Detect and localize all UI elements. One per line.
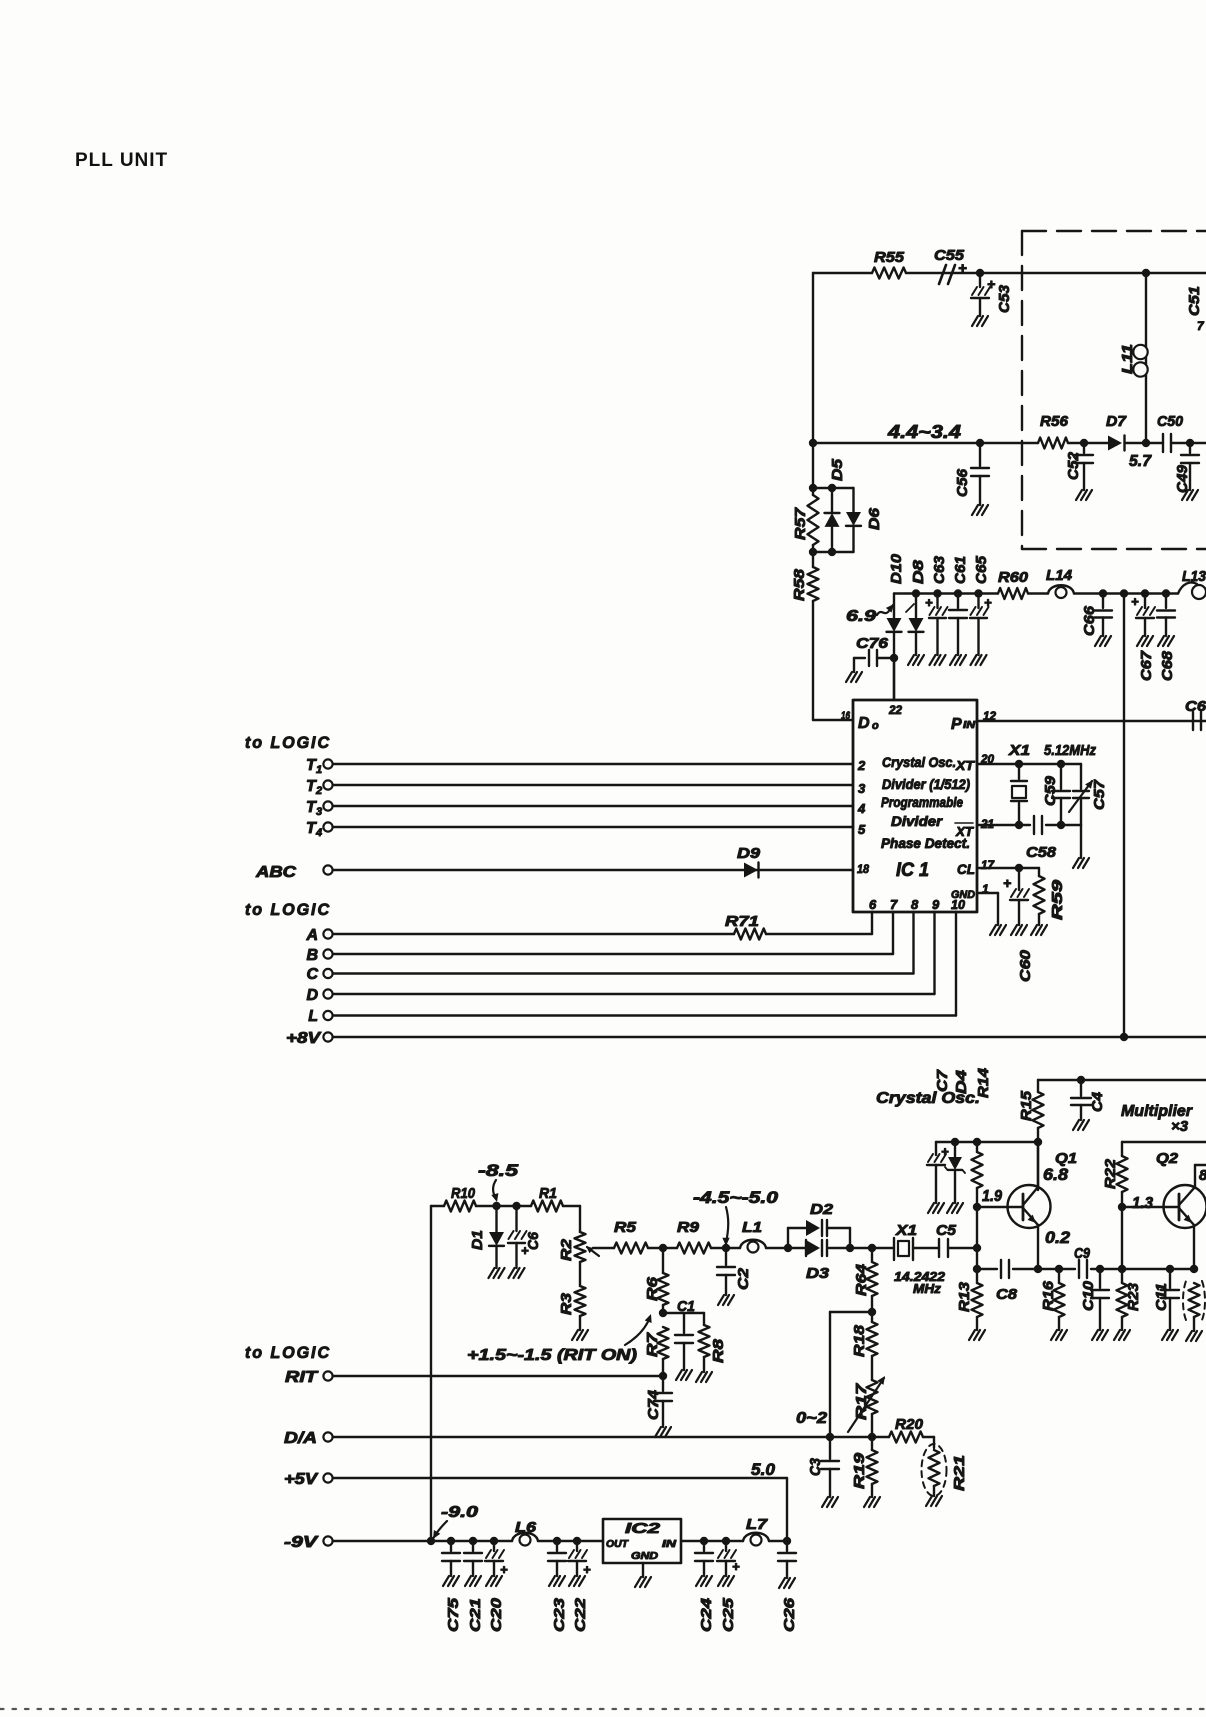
svg-text:to LOGIC: to LOGIC [245,733,331,752]
svg-text:R19: R19 [851,1452,868,1489]
svg-text:6.9: 6.9 [846,608,876,625]
svg-text:+: + [583,1562,591,1577]
svg-text:C52: C52 [1065,451,1082,480]
svg-text:-4.5~-5.0: -4.5~-5.0 [693,1188,779,1207]
svg-text:17: 17 [981,858,995,872]
svg-text:R7: R7 [644,1332,661,1357]
svg-text:18: 18 [857,862,869,876]
svg-text:CL: CL [957,861,975,877]
svg-text:1: 1 [316,764,322,776]
svg-text:C: C [306,966,318,983]
svg-text:7: 7 [890,897,898,912]
svg-text:D9: D9 [737,845,761,862]
svg-text:X1: X1 [1008,742,1030,759]
svg-text:10: 10 [951,897,966,912]
svg-text:D1: D1 [469,1230,486,1250]
svg-text:o: o [872,720,879,732]
svg-text:C10: C10 [1080,1280,1097,1311]
svg-text:+1.5~-1.5 (RIT ON): +1.5~-1.5 (RIT ON) [467,1347,637,1364]
svg-text:4.4~3.4: 4.4~3.4 [887,422,961,442]
svg-text:L7: L7 [746,1516,768,1533]
svg-text:C61: C61 [952,556,969,584]
svg-text:R3: R3 [558,1292,575,1315]
svg-text:ABC: ABC [255,864,297,881]
svg-text:Programmable: Programmable [881,795,963,810]
svg-text:D10: D10 [888,553,905,584]
svg-text:-9V: -9V [284,1534,319,1551]
svg-text:+: + [1003,875,1011,891]
svg-text:R14: R14 [975,1067,992,1098]
svg-text:L6: L6 [515,1519,537,1536]
svg-text:+: + [925,595,933,610]
svg-text:C25: C25 [720,1597,737,1632]
svg-text:+: + [987,276,995,292]
svg-text:+: + [1131,594,1139,609]
svg-text:C57: C57 [1091,779,1108,810]
svg-text:6: 6 [869,897,877,912]
svg-text:R15: R15 [1018,1090,1035,1121]
svg-text:C26: C26 [781,1597,798,1632]
svg-text:C6: C6 [1185,698,1206,715]
svg-text:R9: R9 [677,1219,700,1236]
svg-text:C74: C74 [645,1389,662,1420]
svg-text:C65: C65 [973,555,990,584]
svg-text:Crystal Osc.: Crystal Osc. [882,755,956,770]
svg-text:8: 8 [911,897,919,912]
svg-text:R10: R10 [451,1185,476,1202]
svg-text:A: A [305,927,318,944]
svg-text:C58: C58 [1026,844,1057,861]
svg-text:R57: R57 [792,507,809,540]
svg-text:D6: D6 [866,507,883,530]
svg-text:5.7: 5.7 [1129,453,1152,470]
svg-text:Q2: Q2 [1156,1150,1179,1167]
svg-text:R71: R71 [725,913,759,930]
svg-text:9: 9 [932,897,940,912]
svg-text:R16: R16 [1040,1280,1057,1311]
svg-text:R2: R2 [558,1238,575,1261]
svg-text:D4: D4 [953,1069,970,1094]
svg-text:3: 3 [858,781,866,796]
svg-text:C53: C53 [996,284,1013,313]
svg-text:to LOGIC: to LOGIC [245,900,331,919]
svg-text:R55: R55 [874,249,905,266]
svg-text:C8: C8 [996,1286,1018,1303]
svg-text:C68: C68 [1159,650,1176,681]
svg-text:2: 2 [315,785,322,797]
svg-text:C66: C66 [1081,605,1098,636]
svg-text:D7: D7 [1106,413,1127,430]
svg-text:Divider (1/512): Divider (1/512) [882,777,970,792]
svg-text:L14: L14 [1046,567,1073,584]
svg-text:5.12MHz: 5.12MHz [1044,742,1096,759]
svg-text:IC2: IC2 [625,1520,661,1537]
svg-text:6.8: 6.8 [1043,1165,1069,1184]
svg-text:Divider: Divider [891,814,943,829]
svg-text:R20: R20 [895,1416,924,1433]
svg-text:L1: L1 [742,1219,762,1236]
svg-text:C51: C51 [1186,286,1203,316]
svg-text:XT: XT [955,758,975,773]
svg-text:to LOGIC: to LOGIC [245,1343,331,1362]
svg-text:L11: L11 [1119,344,1136,374]
svg-text:+: + [941,1144,949,1159]
svg-text:C1: C1 [677,1298,695,1315]
svg-text:2: 2 [857,758,866,773]
svg-text:C4: C4 [1089,1091,1106,1112]
svg-text:+8V: +8V [286,1030,322,1047]
svg-text:IC 1: IC 1 [896,860,929,881]
svg-text:L13: L13 [1182,568,1206,585]
svg-text:5.0: 5.0 [751,1460,776,1479]
svg-text:0.2: 0.2 [1045,1228,1071,1247]
svg-text:C9: C9 [1074,1245,1091,1262]
svg-text:R56: R56 [1040,413,1069,430]
svg-text:R8: R8 [710,1338,727,1363]
svg-text:X1: X1 [895,1222,917,1239]
svg-text:C63: C63 [931,555,948,584]
svg-text:R60: R60 [998,569,1029,586]
svg-text:C56: C56 [954,468,971,497]
svg-text:C21: C21 [467,1598,484,1632]
svg-text:C75: C75 [445,1597,462,1632]
svg-text:-9.0: -9.0 [441,1504,478,1521]
svg-text:R5: R5 [614,1219,637,1236]
svg-text:RIT: RIT [285,1369,319,1386]
svg-text:D/A: D/A [284,1430,317,1447]
svg-text:0~2: 0~2 [796,1410,827,1427]
svg-text:5: 5 [858,822,866,837]
svg-text:C5: C5 [936,1222,957,1239]
svg-text:R1: R1 [539,1185,557,1202]
svg-text:C24: C24 [698,1597,715,1632]
svg-text:R64: R64 [853,1263,870,1296]
svg-text:-8.5: -8.5 [478,1161,519,1180]
svg-text:OUT: OUT [606,1539,629,1550]
svg-text:4: 4 [857,801,866,816]
svg-text:R6: R6 [644,1276,661,1301]
svg-text:GND: GND [631,1551,658,1562]
svg-text:R18: R18 [851,1324,868,1357]
svg-text:+5V: +5V [284,1471,319,1488]
svg-text:+: + [984,595,992,610]
svg-text:C7: C7 [934,1069,951,1092]
svg-text:D2: D2 [810,1201,834,1218]
svg-text:1.9: 1.9 [982,1188,1002,1205]
svg-text:+: + [732,1559,740,1574]
svg-text:P: P [951,716,962,733]
svg-text:C60: C60 [1017,949,1034,982]
svg-text:C67: C67 [1138,650,1155,681]
svg-text:8: 8 [1199,1167,1206,1184]
svg-text:7: 7 [1197,319,1205,333]
svg-text:+: + [500,1562,508,1577]
svg-text:D8: D8 [910,559,927,584]
svg-text:R59: R59 [1049,879,1066,920]
svg-text:C11: C11 [1153,1283,1170,1311]
svg-text:R22: R22 [1102,1158,1119,1189]
svg-text:IN: IN [963,720,976,731]
svg-text:R23: R23 [1125,1282,1142,1311]
svg-text:C2: C2 [735,1267,752,1290]
svg-text:C59: C59 [1042,775,1059,806]
svg-text:IN: IN [662,1539,677,1550]
svg-text:4: 4 [315,827,322,839]
svg-text:Phase Detect.: Phase Detect. [881,836,970,851]
svg-text:R17: R17 [853,1383,870,1420]
svg-text:C3: C3 [807,1457,824,1476]
svg-text:L: L [308,1008,318,1025]
svg-text:16: 16 [841,710,851,722]
svg-text:C6: C6 [525,1231,542,1250]
svg-text:C23: C23 [551,1597,568,1632]
svg-text:C76: C76 [856,635,889,652]
svg-text:C20: C20 [488,1597,505,1632]
svg-text:C55: C55 [934,247,965,264]
svg-text:×3: ×3 [1171,1118,1189,1135]
svg-text:R21: R21 [951,1455,968,1491]
svg-text:C49: C49 [1174,464,1191,493]
svg-text:D5: D5 [829,458,846,481]
svg-text:R58: R58 [791,568,808,601]
svg-text:22: 22 [888,703,902,717]
svg-text:MHz: MHz [913,1281,942,1296]
svg-text:B: B [306,947,318,964]
svg-text:R13: R13 [956,1281,973,1312]
svg-text:D: D [306,987,318,1004]
svg-text:1.3: 1.3 [1132,1195,1153,1212]
svg-text:3: 3 [316,806,322,818]
svg-text:D3: D3 [806,1265,830,1282]
svg-text:C50: C50 [1157,413,1184,430]
svg-text:C22: C22 [572,1597,589,1632]
svg-text:D: D [858,715,870,732]
